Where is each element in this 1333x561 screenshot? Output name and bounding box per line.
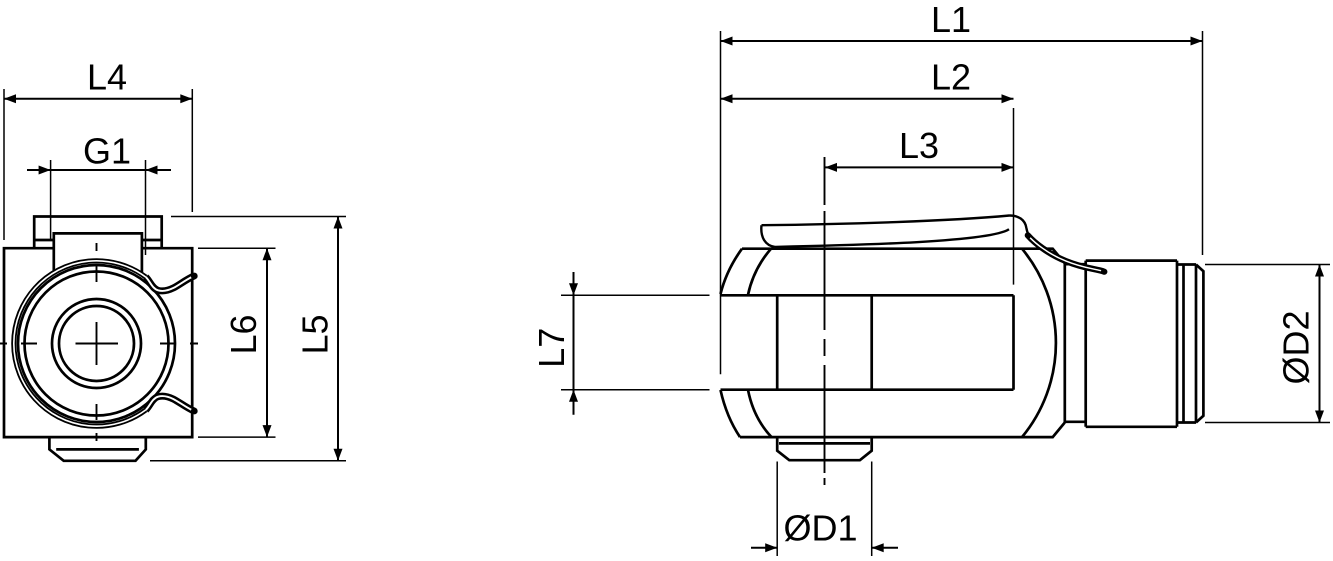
svg-text:G1: G1 — [83, 131, 131, 172]
svg-text:ØD2: ØD2 — [1276, 310, 1317, 384]
svg-text:L7: L7 — [531, 328, 572, 368]
svg-text:L4: L4 — [87, 57, 127, 98]
svg-text:L2: L2 — [931, 57, 971, 98]
svg-text:ØD1: ØD1 — [783, 508, 857, 549]
svg-text:L3: L3 — [899, 125, 939, 166]
svg-text:L1: L1 — [931, 0, 971, 40]
svg-text:L6: L6 — [223, 314, 264, 354]
svg-text:L5: L5 — [295, 314, 336, 354]
